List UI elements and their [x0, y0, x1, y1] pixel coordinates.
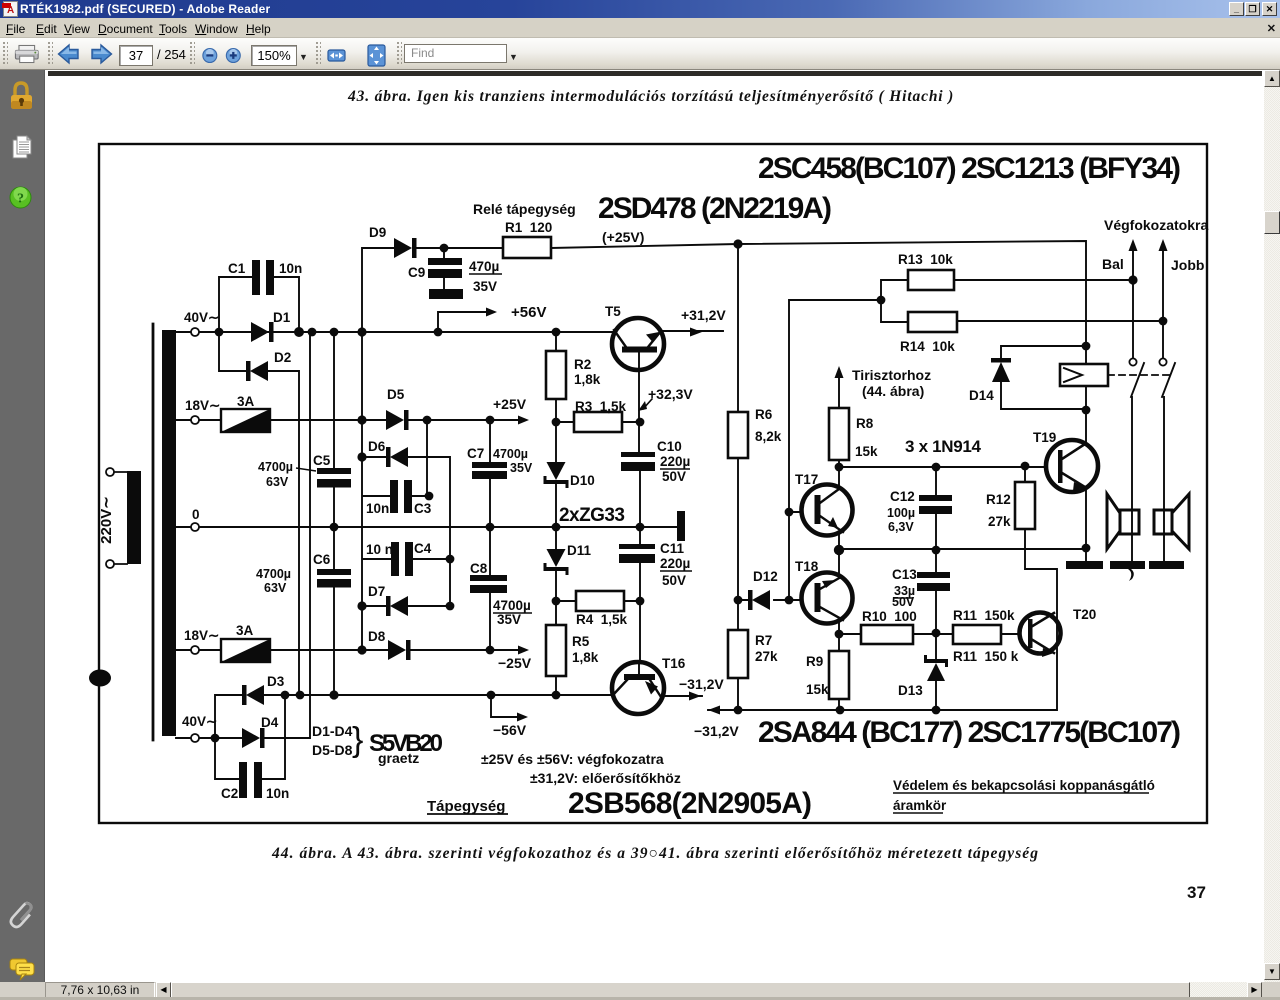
- svg-text:D11: D11: [567, 543, 592, 558]
- svg-text:8,2k: 8,2k: [755, 429, 782, 444]
- svg-text:D3: D3: [267, 674, 285, 689]
- svg-text:2SD478 (2N2219A): 2SD478 (2N2219A): [598, 192, 832, 225]
- svg-text:Végfokozatokra: Végfokozatokra: [1104, 217, 1208, 233]
- svg-text:220µ: 220µ: [660, 454, 690, 469]
- svg-text:10 n: 10 n: [366, 542, 393, 557]
- svg-text:R9: R9: [806, 654, 823, 669]
- svg-text:27k: 27k: [755, 649, 778, 664]
- svg-text:220V∼: 220V∼: [98, 496, 115, 544]
- svg-text:2SA844 (BC177) 2SC1775(BC107): 2SA844 (BC177) 2SC1775(BC107): [758, 716, 1181, 749]
- svg-text:?: ?: [17, 192, 24, 207]
- svg-text:2SB568(2N2905A): 2SB568(2N2905A): [568, 787, 812, 820]
- svg-text:4700µ: 4700µ: [256, 567, 291, 581]
- svg-text:R2: R2: [574, 357, 591, 372]
- svg-text:C9: C9: [408, 265, 425, 280]
- svg-text:}: }: [352, 721, 363, 759]
- svg-text:0: 0: [192, 507, 200, 522]
- svg-text:6,3V: 6,3V: [888, 520, 914, 534]
- svg-text:R5: R5: [572, 634, 590, 649]
- svg-text:Védelem és bekapcsolási koppan: Védelem és bekapcsolási koppanásgátló: [893, 778, 1155, 793]
- svg-text:graetz: graetz: [378, 750, 419, 766]
- svg-text:18V∼: 18V∼: [184, 628, 219, 643]
- svg-text:D13: D13: [898, 683, 923, 698]
- svg-text:R14 10k: R14 10k: [900, 339, 955, 354]
- svg-text:D12: D12: [753, 569, 778, 584]
- svg-text:3A: 3A: [237, 394, 255, 409]
- svg-text:R11 150 k: R11 150 k: [953, 649, 1019, 664]
- svg-text:35V: 35V: [497, 612, 521, 627]
- svg-text:R11 150k: R11 150k: [953, 608, 1015, 623]
- svg-text:−25V: −25V: [498, 655, 532, 671]
- svg-text:D5: D5: [387, 387, 405, 402]
- svg-text:T5: T5: [605, 304, 621, 319]
- svg-text:50V: 50V: [892, 595, 915, 609]
- svg-text:40V∼: 40V∼: [184, 310, 219, 325]
- svg-text:C4: C4: [414, 541, 432, 556]
- svg-text:±25V és ±56V: végfokozatra: ±25V és ±56V: végfokozatra: [481, 751, 664, 767]
- svg-text:50V: 50V: [662, 469, 686, 484]
- svg-text:D1-D4: D1-D4: [312, 723, 353, 739]
- svg-text:2SC458(BC107) 2SC1213 (BFY34): 2SC458(BC107) 2SC1213 (BFY34): [758, 152, 1181, 185]
- svg-text:3 x 1N914: 3 x 1N914: [905, 437, 982, 456]
- svg-text:R3 1,5k: R3 1,5k: [575, 399, 627, 414]
- svg-text:1,8k: 1,8k: [574, 372, 601, 387]
- svg-text:R4 1,5k: R4 1,5k: [576, 612, 628, 627]
- svg-text:R10 100: R10 100: [862, 609, 917, 624]
- svg-text:T18: T18: [795, 559, 819, 574]
- svg-text:T20: T20: [1073, 607, 1096, 622]
- svg-text:100µ: 100µ: [887, 506, 915, 520]
- svg-text:C5: C5: [313, 453, 331, 468]
- svg-text:63V: 63V: [264, 581, 287, 595]
- svg-text:+56V: +56V: [511, 304, 546, 321]
- svg-text:Tápegység: Tápegység: [427, 798, 505, 815]
- svg-text:4700µ: 4700µ: [258, 460, 293, 474]
- svg-text:T19: T19: [1033, 430, 1056, 445]
- svg-text:40V∼: 40V∼: [182, 714, 217, 729]
- svg-text:D14: D14: [969, 388, 994, 403]
- svg-text:R1 120: R1 120: [505, 220, 552, 235]
- svg-text:Tirisztorhoz: Tirisztorhoz: [852, 367, 931, 383]
- svg-text:D10: D10: [570, 473, 595, 488]
- svg-text:10n: 10n: [279, 261, 302, 276]
- svg-text:2xZG33: 2xZG33: [559, 505, 625, 526]
- svg-text:R8: R8: [856, 416, 874, 431]
- svg-text:10n: 10n: [366, 501, 389, 516]
- svg-text:D9: D9: [369, 225, 386, 240]
- svg-text:4700µ: 4700µ: [493, 598, 531, 613]
- svg-text:470µ: 470µ: [469, 259, 499, 274]
- svg-text:50V: 50V: [662, 573, 686, 588]
- svg-text:C1: C1: [228, 261, 246, 276]
- svg-text:15k: 15k: [806, 682, 829, 697]
- svg-text:C11: C11: [660, 541, 685, 556]
- svg-text:R6: R6: [755, 407, 773, 422]
- svg-text:Relé tápegység: Relé tápegység: [473, 201, 576, 217]
- svg-text:−31,2V: −31,2V: [694, 723, 739, 739]
- svg-text:(44. ábra): (44. ábra): [862, 383, 924, 399]
- svg-text:C10: C10: [657, 439, 682, 454]
- svg-text:3A: 3A: [236, 623, 254, 638]
- svg-text:R7: R7: [755, 633, 772, 648]
- svg-text:−31,2V: −31,2V: [679, 676, 724, 692]
- svg-text:±31,2V: előerősítőkhöz: ±31,2V: előerősítőkhöz: [530, 770, 681, 786]
- svg-text:D6: D6: [368, 439, 386, 454]
- svg-text:C13: C13: [892, 567, 917, 582]
- svg-text:D7: D7: [368, 584, 385, 599]
- svg-text:4700µ: 4700µ: [493, 447, 528, 461]
- svg-text:35V: 35V: [510, 461, 533, 475]
- svg-text:C2: C2: [221, 786, 238, 801]
- svg-text:35V: 35V: [473, 279, 497, 294]
- svg-text:+32,3V: +32,3V: [648, 386, 693, 402]
- svg-text:+31,2V: +31,2V: [681, 307, 726, 323]
- svg-text:C6: C6: [313, 552, 331, 567]
- svg-text:D5-D8: D5-D8: [312, 742, 353, 758]
- svg-text:D4: D4: [261, 715, 279, 730]
- svg-text:C12: C12: [890, 489, 915, 504]
- svg-text:(+25V): (+25V): [602, 229, 644, 245]
- svg-text:63V: 63V: [266, 475, 289, 489]
- svg-text:27k: 27k: [988, 514, 1011, 529]
- svg-text:T16: T16: [662, 656, 686, 671]
- svg-text:1,8k: 1,8k: [572, 650, 599, 665]
- svg-text:10n: 10n: [266, 786, 289, 801]
- svg-text:C7: C7: [467, 446, 484, 461]
- svg-text:+25V: +25V: [493, 396, 527, 412]
- svg-text:D2: D2: [274, 350, 291, 365]
- svg-text:áramkör: áramkör: [893, 798, 947, 813]
- svg-text:220µ: 220µ: [660, 556, 690, 571]
- svg-text:−56V: −56V: [493, 722, 527, 738]
- svg-text:R13 10k: R13 10k: [898, 252, 953, 267]
- svg-text:Bal: Bal: [1102, 256, 1124, 272]
- svg-text:Jobb: Jobb: [1171, 257, 1204, 273]
- svg-text:C8: C8: [470, 561, 488, 576]
- svg-text:15k: 15k: [855, 444, 878, 459]
- svg-text:D1: D1: [273, 310, 291, 325]
- svg-text:C3: C3: [414, 501, 432, 516]
- svg-text:D8: D8: [368, 629, 386, 644]
- svg-text:T17: T17: [795, 472, 818, 487]
- svg-text:18V∼: 18V∼: [185, 398, 220, 413]
- svg-text:R12: R12: [986, 492, 1011, 507]
